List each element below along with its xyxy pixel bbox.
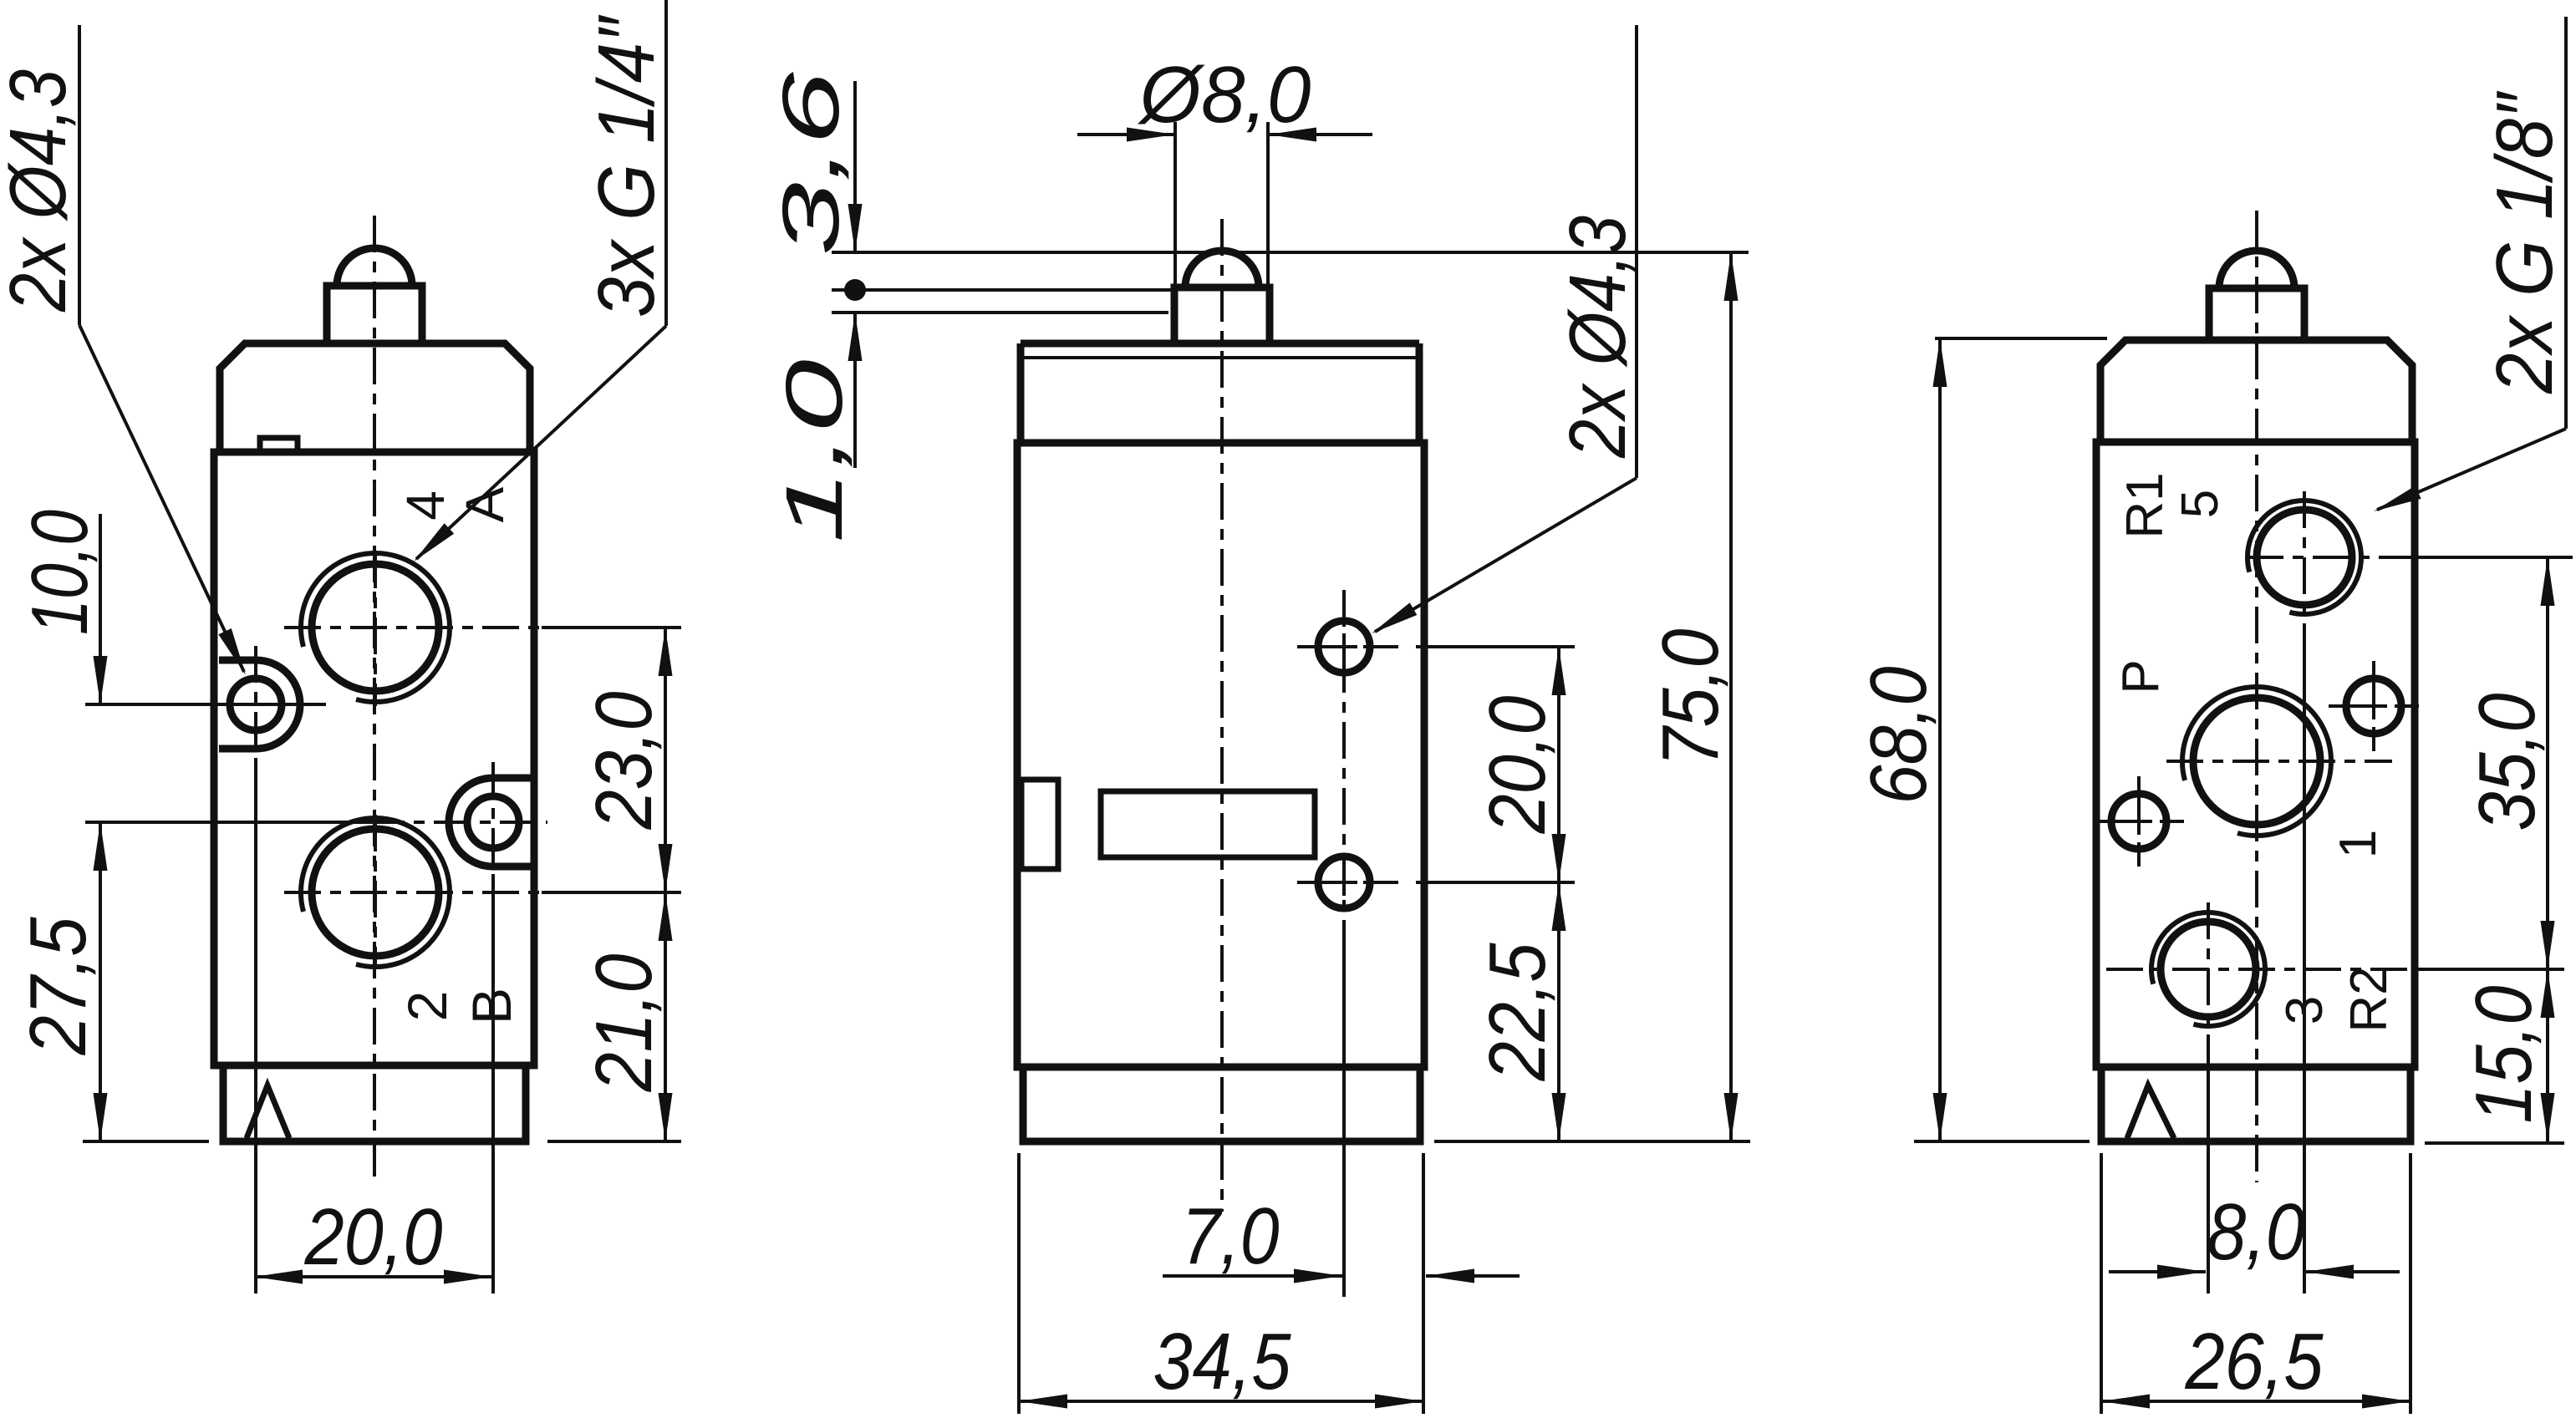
svg-text:26,5: 26,5: [2185, 1317, 2324, 1406]
plunger body right: [2209, 288, 2304, 340]
svg-text:7,0: 7,0: [1182, 1192, 1280, 1281]
dim 68,0: [1935, 337, 2107, 340]
mounting hole mid-right: [467, 796, 519, 848]
svg-text:21,0: 21,0: [579, 954, 669, 1093]
svg-text:10,0: 10,0: [15, 510, 104, 635]
svg-text:1,0: 1,0: [770, 359, 859, 543]
base middle: [1023, 1067, 1420, 1141]
port 4/A centerline: [284, 626, 542, 629]
cap body middle: [1021, 343, 1419, 443]
port R1/5 centerlines: [2247, 556, 2416, 559]
dim 10,0 left: [99, 514, 102, 704]
surface mark triangle left: [247, 1085, 289, 1138]
dim 22,5 middle: [1557, 882, 1560, 1141]
svg-text:2: 2: [396, 991, 458, 1022]
dim 27,5 left: [99, 822, 102, 1141]
hole 2 middle (D4,3): [1318, 856, 1370, 908]
plunger dome right: [2219, 251, 2294, 288]
svg-text:4: 4: [395, 490, 456, 521]
hole top-left centerlines: [85, 703, 326, 706]
body rect right: [2096, 442, 2415, 1067]
svg-text:3x G 1/4″: 3x G 1/4″: [582, 14, 671, 318]
leader 3x G 1/4: [664, 0, 668, 326]
svg-text:8,0: 8,0: [2207, 1187, 2305, 1277]
hole 1 middle (D4,3): [1318, 621, 1370, 673]
hole mid-right centerlines: [85, 821, 368, 824]
base left: [223, 1065, 526, 1141]
hole 1 centerline: [1297, 645, 1398, 648]
dim 1,0: [853, 313, 857, 468]
leader 2x G 1/8: [2564, 17, 2568, 429]
vent tab: [260, 438, 298, 451]
port 4/A circle: [312, 564, 439, 691]
small hole right (right view): [2346, 679, 2401, 734]
svg-text:68,0: 68,0: [1854, 667, 1943, 805]
plunger dome middle: [1185, 251, 1259, 287]
svg-text:23,0: 23,0: [579, 692, 669, 831]
plunger body left: [327, 286, 422, 343]
dim 20,0 middle: [1416, 645, 1575, 648]
svg-text:Ø8,0: Ø8,0: [1138, 50, 1311, 140]
vertical centerline through holes: [1342, 590, 1346, 928]
leader 2x D4,3 left: [78, 25, 81, 325]
plunger dome left: [337, 248, 412, 286]
stroke ref lines 3,6 / 1,0: [832, 251, 1749, 254]
svg-text:1: 1: [2329, 830, 2387, 858]
svg-text:75,0: 75,0: [1646, 629, 1735, 767]
port P circle: [2193, 698, 2320, 825]
svg-text:3: 3: [2276, 996, 2334, 1024]
svg-text:2x G 1/8″: 2x G 1/8″: [2480, 90, 2569, 394]
dim 34,5 bottom middle: [1017, 1153, 1021, 1414]
svg-text:R2: R2: [2340, 966, 2398, 1032]
surface mark triangle right: [2127, 1085, 2174, 1138]
side notch middle: [1021, 780, 1058, 869]
svg-text:3,6: 3,6: [766, 71, 856, 256]
svg-text:15,0: 15,0: [2459, 986, 2548, 1124]
label plate middle: [1101, 791, 1315, 857]
dim 7,0 bottom middle: [1342, 959, 1346, 1297]
body rect middle: [1017, 443, 1424, 1067]
svg-text:34,5: 34,5: [1153, 1317, 1292, 1406]
dim 21,0: [664, 892, 667, 1141]
svg-text:A: A: [455, 486, 515, 522]
port P centerline: [2166, 760, 2392, 763]
dim 75,0: [1729, 252, 1733, 1141]
dim 26,5 bottom right view: [2100, 1153, 2103, 1414]
dim 15,0: [2546, 969, 2549, 1141]
dim 35,0: [2546, 557, 2549, 969]
base right: [2101, 1067, 2411, 1141]
cap (chamfered) right: [2100, 340, 2412, 442]
svg-text:2x Ø4,3: 2x Ø4,3: [1553, 216, 1642, 459]
svg-text:20,0: 20,0: [304, 1192, 443, 1282]
svg-text:35,0: 35,0: [2462, 694, 2552, 831]
svg-text:27,5: 27,5: [13, 917, 103, 1055]
port 3/R2 circle: [2161, 922, 2256, 1017]
dim 3,6: [853, 81, 857, 252]
centerline vertical middle: [1220, 219, 1224, 1212]
svg-text:2x Ø4,3: 2x Ø4,3: [0, 69, 83, 313]
port 3/R2 centerlines: [2106, 968, 2416, 971]
mounting hole top-left (2x D4,3): [230, 679, 282, 730]
dim 20,0 bottom left view: [254, 1275, 492, 1278]
port 2/B circle: [312, 829, 439, 956]
leader 2x D4,3 middle: [1635, 25, 1638, 478]
svg-text:R1: R1: [2116, 472, 2174, 538]
svg-text:20,0: 20,0: [1473, 696, 1562, 835]
svg-text:P: P: [2112, 659, 2170, 694]
cap (chamfered) left: [220, 343, 530, 452]
svg-text:B: B: [461, 988, 522, 1024]
svg-text:22,5: 22,5: [1473, 943, 1562, 1081]
svg-text:5: 5: [2171, 490, 2229, 518]
dim 8,0 bottom right view: [2109, 1270, 2206, 1273]
centerline vertical right view: [2255, 211, 2258, 1182]
small hole left (right view): [2111, 794, 2166, 849]
centerline vertical left view: [373, 216, 376, 1180]
plunger body middle: [1174, 287, 1270, 342]
cap top plate middle: [1021, 340, 1419, 348]
port 2/B centerline: [284, 891, 542, 894]
dim 23,0 right of left view: [664, 628, 667, 892]
body rect left: [214, 452, 534, 1065]
port R1/5 circle: [2257, 510, 2352, 605]
hole 2 centerline: [1297, 881, 1398, 884]
